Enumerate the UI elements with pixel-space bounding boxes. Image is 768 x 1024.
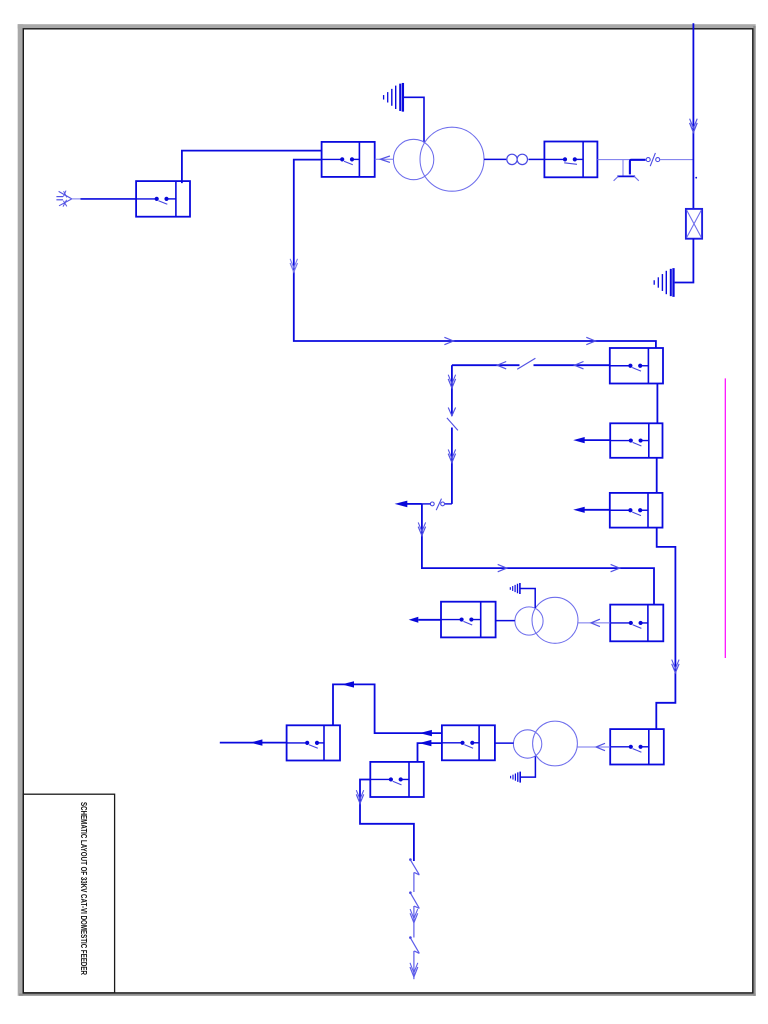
switch S11 [287,725,340,760]
incoming 33kV line from top [692,23,694,209]
bus S5 to S6 [656,458,658,493]
spur arrow at junction [395,501,408,508]
title block box [23,794,114,993]
flow arrow on riser upper [448,375,455,388]
ground G1 at transformer T1 [384,83,403,112]
wire T1 to CT coils [484,158,506,160]
wire ground G4 to T3 [520,756,535,777]
switch S5 [610,423,662,458]
ground G3 at T2 [510,583,520,594]
wire T1 to S2 with arrow [375,158,394,160]
end arrow of rural line [410,963,418,977]
switch S10 [442,725,495,760]
cutout switch K1 [409,858,419,875]
flow arrow on S10 lower wire [419,740,431,746]
switch S4 [610,348,663,384]
switch S3 [544,142,597,178]
disconnector D1 right contact [656,158,660,162]
disconnector D2 right contact [441,502,445,506]
fuse link FL1 box [686,209,702,239]
rural feeder line with cutouts [413,872,415,979]
incoming feeder arrow symbol [56,191,71,207]
wire D1 to incoming line [660,159,693,161]
flow arrow at T3 secondary [596,743,605,750]
wire S1 top feed to switch S2 [182,151,322,184]
stray dot [695,177,697,179]
flow arrow on cross wire left [498,564,507,571]
flow arrow on riser lower [448,449,455,462]
wire T2 to S7 [578,622,610,624]
switch S9 [441,602,496,638]
switch S7 [610,605,663,642]
ground G4 at T3 [511,772,521,783]
CT coil left [507,154,517,164]
wire ground G1 to transformer T1 [403,97,424,142]
wire junction spur [407,503,422,505]
ground G2 [654,268,673,297]
wire D2 to junction [422,503,431,505]
wire junction down and across to switch S7 [422,504,654,605]
wire T3 to S8 [577,746,610,748]
wire S10 to T3 [495,742,514,744]
wire CT to switch S3 [529,158,545,160]
svg-text:SCHEMATIC LAYOUT OF 33KV CAT-V: SCHEMATIC LAYOUT OF 33KV CAT-VI DOMESTIC… [79,802,89,976]
switch S6 [610,493,663,528]
switch S2 [322,142,375,177]
CT coil right [517,154,527,164]
feeder arrow from S6 [584,509,610,511]
flow arrow on rural line [410,909,418,923]
feeder arrow from S9 [418,619,441,621]
transformer T2 primary winding [515,607,543,635]
switch S1 [136,181,190,217]
flow arrow below junction [418,522,425,535]
wire S4 to sectionalizer riser [452,365,610,504]
bus S6 down to switch S8 [656,528,675,730]
line break switch on S4 wire [517,358,535,369]
flow arrow on S4 wire [575,362,584,369]
feeder arrow from S5 [584,439,611,441]
transformer T3 secondary winding [533,721,578,766]
disconnector D2 right contact wire [445,503,452,505]
wire S3 to earthing switch [597,159,644,161]
feeder arrow from S11 [220,742,287,744]
flow arrow left of break [497,362,506,369]
magenta revision line [724,378,726,658]
flow arrow at T2 secondary [591,619,600,626]
wire FL1 to ground G2 [675,239,694,283]
line break switch on riser [447,408,458,431]
flow arrow on incoming line [690,119,698,133]
transformer T1 secondary winding [420,127,484,191]
transformer T1 primary winding [393,139,433,179]
flow arrow on cross wire right [611,564,620,571]
flow arrow on S10 upper wire [420,730,432,736]
transformer T2 secondary winding [532,597,578,643]
wire S10 upper to switch S11 [333,684,442,733]
earthing switch assembly [614,160,646,181]
bus S4 to S5 [656,384,658,424]
wire S9 to T2 [496,620,515,622]
flow arrow on S12 drop [356,790,363,803]
flow arrow on S6-S8 bus [672,660,679,673]
disconnector D1 blade [650,153,655,166]
wire S2 to 33kV bus riser and top bus to switch S4 [294,160,656,348]
flow arrow on top bus right [586,337,595,344]
flow arrow on riser [290,259,297,272]
flow arrow at T1 primary [380,156,390,162]
disconnector D2 left contact [430,502,434,506]
disconnector D2 blade [436,499,441,511]
wire S12 to rural line [360,780,414,862]
flow arrow on S11 feed wire [342,681,354,687]
wire ground G3 to T2 [520,589,535,609]
wire S10 lower to switch S12 [418,743,442,762]
transformer T3 primary winding [513,730,541,758]
disconnector D1 left contact [646,158,650,162]
switch S12 [370,762,424,797]
wire incoming feeder to switch S1 [72,198,136,200]
cutout switch K3 [409,936,419,953]
switch S8 [610,729,664,764]
flow arrow on top bus left [444,337,453,344]
cutout switch K2 [409,891,419,908]
